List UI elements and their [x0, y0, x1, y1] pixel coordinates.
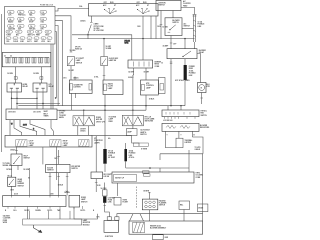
W2 inner box	[114, 175, 137, 182]
wire upper horizontal right	[72, 35, 132, 60]
connector on x66	[66, 191, 68, 192]
wire H out 1	[49, 173, 51, 177]
bulkhead terminal 3	[19, 58, 21, 64]
svg-text:FUSE: FUSE	[108, 200, 112, 202]
wire link to junction	[184, 80, 186, 106]
blower relay blade	[183, 51, 191, 57]
headlight switch contacts	[104, 8, 117, 14]
wire fuse exit 3	[55, 21, 63, 106]
junction dot F2 feed	[132, 110, 133, 111]
fuse block terminal FLSH	[13, 37, 18, 40]
wire into fan switch box	[180, 106, 182, 110]
white connector rect	[103, 190, 108, 196]
connector tick on courtesy drop	[70, 51, 73, 53]
wire box A down	[183, 210, 185, 222]
svg-text:FLSH1: FLSH1	[13, 41, 18, 43]
dome box bottom pin	[73, 207, 75, 209]
H feed connector	[57, 155, 60, 157]
svg-text:INST LPS: INST LPS	[28, 35, 35, 37]
heater control box D	[141, 80, 159, 95]
courtesy lamp element 3	[79, 140, 90, 147]
connector pin 4	[145, 205, 148, 208]
wire feed F2	[132, 106, 134, 116]
svg-text:OFF: OFF	[104, 2, 107, 4]
svg-text:18 W: 18 W	[97, 185, 101, 187]
svg-text:SWITCHES: SWITCHES	[145, 121, 153, 123]
svg-text:ST: ST	[114, 5, 116, 7]
fuse TURN	[6, 30, 12, 33]
svg-text:DOME: DOME	[96, 117, 101, 119]
wire H feed	[58, 150, 60, 164]
relay B box	[33, 83, 47, 92]
dimmer switch box	[11, 154, 22, 166]
glovebox switch blade	[102, 59, 106, 65]
fuse block terminal IGN	[20, 37, 25, 40]
relay A coil pins	[10, 87, 19, 89]
svg-text:PULSE: PULSE	[125, 41, 130, 43]
wire bus to blower relay right pin	[184, 39, 186, 49]
wire D bottom	[145, 95, 147, 110]
svg-text:W/W: W/W	[18, 22, 22, 24]
bulkhead terminal 5	[32, 58, 34, 64]
svg-text:MONITOR: MONITOR	[83, 222, 91, 224]
svg-text:LID SW: LID SW	[104, 176, 110, 178]
svg-text:RR COMPT: RR COMPT	[104, 174, 113, 176]
fuse PWR ACC	[18, 10, 25, 13]
svg-text:18 BRN: 18 BRN	[35, 210, 42, 212]
connector tick right column	[193, 15, 197, 17]
R1 pins	[165, 117, 196, 119]
wire blower motor ground	[201, 93, 203, 105]
ignition and light switch box	[89, 4, 159, 16]
fuse RADIO	[8, 17, 15, 20]
wire ignition sw to right column	[181, 7, 195, 14]
wire box L1 drop 1	[9, 120, 11, 136]
wire G to ashtray run	[92, 135, 132, 137]
svg-text:CLUSTER: CLUSTER	[3, 218, 11, 220]
wire cross lower	[17, 103, 60, 105]
svg-text:SWITCH: SWITCH	[184, 26, 191, 28]
tick on accessory drop	[160, 24, 163, 26]
wire H out1 continues	[49, 176, 51, 195]
svg-text:18 GRY: 18 GRY	[106, 46, 113, 48]
twisted pair ticks	[193, 20, 196, 37]
wire fuse exit 4	[55, 26, 58, 106]
fuse B/U	[16, 30, 22, 33]
ashtray lamp box	[126, 129, 137, 136]
fuse GAUGES	[8, 24, 15, 27]
tick motor ground	[200, 97, 203, 99]
connector pin 6	[153, 205, 156, 208]
svg-text:SWITCH: SWITCH	[140, 134, 147, 136]
svg-text:ILLUM: ILLUM	[108, 86, 114, 88]
courtesy lamp element 2	[50, 140, 61, 147]
bulkhead terminal 6	[39, 58, 41, 64]
wire bus vertical 5	[52, 44, 54, 109]
relay B coil pins	[36, 87, 45, 89]
wire ignition to AC switch	[172, 11, 174, 18]
A/C switch blade	[170, 25, 176, 30]
wire x189 down	[188, 150, 190, 172]
wire switch box drop mid3	[155, 16, 157, 39]
svg-text:10: 10	[161, 63, 163, 65]
heater blower assembly long box W3	[129, 221, 203, 234]
tick under glovebox switch	[103, 75, 106, 77]
small connector pair B	[144, 174, 151, 176]
wire right column pair a	[193, 15, 195, 43]
A/C blade tick	[168, 31, 171, 33]
svg-text:ST: ST	[147, 5, 149, 7]
svg-text:18 BRN: 18 BRN	[106, 48, 113, 50]
svg-text:SWITCH: SWITCH	[201, 115, 208, 117]
svg-text:FUSIBLE: FUSIBLE	[129, 153, 136, 155]
strip bus bar	[5, 57, 49, 59]
fuse DIR	[40, 24, 47, 27]
svg-text:I/P WRG: I/P WRG	[59, 111, 66, 113]
wiper switch contacts	[137, 8, 150, 14]
svg-text:BLO: BLO	[206, 84, 210, 86]
wire box L1 drop 3 diagonal jog	[30, 120, 45, 136]
glovebox switch box right	[101, 57, 108, 66]
svg-text:TO DOME: TO DOME	[109, 117, 116, 119]
wire bus vertical 4	[50, 44, 52, 109]
fuse HAZ	[40, 17, 47, 20]
wire feed F1	[83, 110, 85, 116]
svg-text:BLOWER: BLOWER	[199, 50, 207, 52]
svg-text:RHEO: RHEO	[155, 64, 160, 66]
wire bus into lamp box	[51, 120, 53, 136]
relay B inner contact	[39, 83, 41, 85]
svg-text:LIGHTER: LIGHTER	[74, 87, 82, 89]
dimmer blade	[14, 156, 20, 164]
junction blob y168	[149, 167, 151, 169]
wire blower relay out right to link	[184, 59, 186, 65]
fusible link black bar	[184, 65, 187, 80]
wire right column x202 down from loop	[202, 154, 204, 214]
svg-text:IGNITION: IGNITION	[159, 2, 167, 4]
svg-text:CRTSY: CRTSY	[29, 143, 35, 145]
thermal limiter box	[176, 138, 183, 147]
bulkhead terminal 1	[6, 58, 8, 64]
wire blade to bus	[87, 34, 89, 39]
blower motor circle	[199, 85, 205, 91]
blade tick	[90, 21, 93, 23]
wire box L1 drop 4	[14, 120, 22, 136]
wire switch box drop mid1	[142, 16, 144, 60]
wire relay B pin1 down	[36, 92, 38, 109]
svg-text:FUSE BLOCK: FUSE BLOCK	[40, 5, 54, 7]
wire H out3 continues	[66, 176, 68, 195]
tick below bar3	[103, 205, 106, 207]
wire fuse block to ignition switch feed	[55, 8, 89, 11]
dome lamp X-box F1	[73, 116, 95, 126]
wire right column to blower relay	[194, 42, 196, 49]
svg-text:RH & LH: RH & LH	[145, 116, 152, 118]
svg-text:20 BLK: 20 BLK	[128, 77, 134, 79]
svg-text:LPS: LPS	[49, 84, 52, 86]
ground arrow	[33, 225, 40, 232]
svg-text:TO TURN: TO TURN	[3, 163, 11, 165]
lamp monitor module box	[23, 219, 82, 225]
A/C control switch box	[165, 18, 182, 36]
wiper switch rotary	[138, 9, 150, 14]
svg-text:I/P COMPT: I/P COMPT	[76, 58, 84, 60]
fuse block terminal LPS	[41, 37, 46, 40]
wire dimmer pin2	[17, 166, 19, 171]
svg-text:L M1 M2 H B: L M1 M2 H B	[163, 120, 173, 122]
wire bulkhead to horn relay	[15, 67, 17, 83]
svg-text:18 ORN: 18 ORN	[94, 28, 101, 30]
svg-text:T: T	[181, 135, 182, 137]
svg-text:18 W: 18 W	[23, 125, 27, 127]
fuse INST LPS	[27, 30, 33, 33]
fuse block terminal ACC	[27, 37, 32, 40]
svg-text:IGN1: IGN1	[20, 41, 24, 43]
wire ashtray to link	[132, 136, 139, 147]
svg-text:18 BLK: 18 BLK	[149, 99, 155, 101]
wire mid horizontal power bus	[58, 105, 185, 107]
wire relay A pin2 down	[16, 92, 18, 109]
wire AC switch to right column	[182, 27, 194, 29]
svg-text:BELT: BELT	[44, 113, 48, 115]
narrow box inner	[160, 84, 164, 91]
fuse TAIL	[29, 10, 36, 13]
W3 bottom small box	[153, 235, 164, 240]
courtesy lamp switch box left	[67, 57, 74, 66]
svg-text:CLUSTER: CLUSTER	[183, 3, 191, 5]
svg-text:SWITCH: SWITCH	[71, 168, 78, 170]
blower relay box	[167, 49, 197, 59]
wire W2 bottom drop	[117, 183, 119, 196]
junction dot main bus	[87, 34, 88, 35]
blower motor box	[198, 83, 207, 93]
wire dome switch to harness	[74, 207, 98, 219]
wire bar3 to battery terminal	[105, 203, 110, 217]
svg-text:LPS: LPS	[42, 38, 44, 40]
wire switch box drop mid2	[150, 16, 152, 39]
wire cargo lamp down	[95, 179, 97, 192]
jog	[132, 74, 135, 76]
wire F2 out bottom	[132, 126, 134, 129]
svg-text:BLOWER: BLOWER	[172, 20, 180, 22]
svg-text:DOME: DOME	[81, 197, 86, 199]
C1 inner terminal right	[89, 84, 92, 91]
svg-text:TIMER: TIMER	[44, 116, 50, 118]
fuse WDO	[45, 30, 51, 33]
tick cargo wire	[95, 182, 98, 184]
wire R2b out 2	[178, 131, 180, 138]
wire F1 out left	[77, 126, 79, 136]
svg-text:CB1: CB1	[6, 41, 9, 43]
svg-text:FLSHR: FLSHR	[123, 202, 129, 204]
svg-text:16 ORN: 16 ORN	[33, 73, 40, 75]
wire G to switch H second	[42, 147, 44, 164]
wire courtesy switch to lighter	[70, 66, 72, 80]
svg-text:MODULE: MODULE	[83, 224, 90, 226]
wire bar1 to junction block	[104, 164, 106, 172]
inline connector on relay B wire	[40, 77, 43, 80]
connector pin 3	[153, 201, 156, 204]
svg-text:18 GRY: 18 GRY	[68, 70, 75, 72]
wire into circles box	[148, 192, 150, 199]
relay A inner contact	[13, 83, 15, 85]
small box right A	[179, 201, 190, 210]
bulkhead terminal 2	[13, 58, 15, 64]
svg-text:STRG: STRG	[196, 173, 201, 175]
svg-text:GLOVE BOX: GLOVE BOX	[109, 58, 119, 60]
svg-text:OFF: OFF	[137, 2, 140, 4]
svg-text:FUSIBLE: FUSIBLE	[198, 24, 205, 26]
lamp monitor wide box	[6, 109, 57, 120]
dimmer top tick	[15, 150, 18, 152]
svg-text:IGN: IGN	[21, 38, 23, 40]
svg-text:IGN KEY LP: IGN KEY LP	[115, 178, 125, 180]
svg-text:CB: CB	[7, 38, 9, 40]
wire right of headlamp area	[29, 168, 31, 196]
svg-text:18 BRN: 18 BRN	[143, 191, 150, 193]
svg-text:LIMITER: LIMITER	[185, 142, 192, 144]
wire fuse exit 5	[55, 32, 56, 99]
tick circles feed	[148, 192, 151, 194]
svg-text:COURTESY: COURTESY	[94, 140, 104, 142]
junction dots relay wires	[11, 97, 56, 104]
small box left of dash	[114, 198, 121, 206]
fuse block outline	[5, 7, 56, 45]
svg-text:GLOVE BOX: GLOVE BOX	[140, 130, 150, 132]
wire relay A pin1 down	[11, 92, 13, 109]
courtesy lamps wide box	[5, 135, 92, 147]
wire dimmer feed	[16, 147, 18, 154]
wire headlamp sw down	[11, 186, 13, 195]
svg-text:I/P LPS: I/P LPS	[75, 47, 80, 49]
cargo lamp box	[91, 172, 103, 179]
headlight switch rotary	[105, 9, 117, 14]
svg-text:FUSIBLE: FUSIBLE	[189, 73, 196, 75]
wire left bus x56	[55, 147, 57, 180]
wire terminal2 up	[117, 214, 203, 217]
small box right B	[197, 204, 208, 212]
wire switch box drop left	[90, 16, 92, 22]
wire D top feed	[145, 68, 147, 80]
svg-text:CONTROL: CONTROL	[146, 85, 154, 87]
wire AC switch down	[170, 36, 172, 49]
wire cluster to monitor box	[27, 209, 29, 219]
wire R2 pin1 down	[133, 68, 135, 75]
tick on AC drop	[170, 42, 173, 44]
bulkhead terminal 4	[26, 58, 28, 64]
wire R2b out 3	[191, 131, 193, 137]
cluster bottom pins	[8, 207, 60, 209]
svg-text:18 WHT: 18 WHT	[80, 129, 86, 131]
svg-text:18 GRY: 18 GRY	[144, 72, 151, 74]
svg-text:I/P LPS FUSE: I/P LPS FUSE	[94, 30, 104, 32]
svg-text:SWITCH: SWITCH	[76, 62, 83, 64]
svg-text:WIRE: WIRE	[3, 222, 7, 224]
wire F1 out right	[88, 126, 90, 136]
wire run to cargo lamp	[95, 136, 97, 172]
fuse HTR A/C	[29, 24, 36, 27]
wire harness y213 diagonals	[130, 214, 134, 221]
cigarette lighter box C1	[69, 80, 92, 93]
svg-text:C2: C2	[10, 56, 12, 58]
wire ignition sw accessory drop	[160, 11, 162, 39]
wire W3 to bottom box	[157, 233, 159, 236]
wire C1 top stub 2	[74, 77, 76, 81]
wire bar2 feed	[125, 143, 127, 149]
tick right of cluster	[82, 206, 84, 209]
svg-text:REL: REL	[180, 205, 183, 207]
C2 inner terminal	[104, 84, 107, 91]
svg-text:SWITCH: SWITCH	[47, 170, 54, 172]
junction dot	[184, 38, 185, 39]
svg-text:POWER: POWER	[189, 66, 196, 68]
svg-text:S TERM: S TERM	[141, 148, 148, 150]
ignition switch box top right	[156, 0, 181, 10]
bulkhead connector strip	[2, 53, 51, 67]
svg-text:FUSIBLE: FUSIBLE	[108, 153, 115, 155]
svg-text:FLSH: FLSH	[14, 38, 17, 40]
fuse block terminal CB	[6, 37, 11, 40]
fan switch box R1	[162, 110, 199, 117]
wire right column pair b	[195, 15, 197, 43]
bulkhead terminal 7	[45, 58, 47, 64]
svg-text:JUNCTION: JUNCTION	[105, 236, 114, 238]
wire bar2 down	[125, 161, 127, 168]
W3 hatched left end	[133, 222, 145, 232]
wire monitor pins	[29, 211, 70, 219]
svg-text:18 BLK: 18 BLK	[58, 184, 64, 186]
wire right loop down	[192, 137, 203, 154]
svg-text:RESISTORS: RESISTORS	[200, 127, 209, 129]
radio box C2	[103, 80, 123, 95]
D inner terminal	[141, 84, 144, 90]
junction dot link	[180, 105, 181, 106]
fuse STOP	[29, 17, 36, 20]
wire R2b out 1	[165, 131, 176, 147]
wiper relay box R2	[128, 60, 153, 68]
wire left end down	[167, 106, 169, 110]
junction dot F1 feed	[83, 110, 84, 111]
wire C1 bottom 2	[75, 93, 77, 98]
svg-text:SWITCH: SWITCH	[81, 201, 88, 203]
svg-text:18 BLK: 18 BLK	[80, 131, 86, 133]
svg-text:18 W 18 B: 18 W 18 B	[8, 111, 16, 113]
headlamp switch blade	[9, 179, 14, 185]
courtesy lamp element 1	[16, 140, 27, 147]
dashed connector boundary	[135, 187, 137, 209]
svg-text:CRTSY LPS: CRTSY LPS	[96, 121, 105, 123]
R2 inner bars	[134, 62, 149, 67]
wire right column down to box	[202, 214, 204, 221]
svg-text:C1: C1	[4, 56, 6, 58]
svg-text:18 GRN: 18 GRN	[23, 169, 30, 171]
R1 inner detents	[166, 112, 190, 115]
wire C2 bottom to link	[104, 95, 106, 150]
inline connector on relay A wire	[14, 77, 17, 80]
connector pin 2	[149, 201, 152, 204]
fuse block terminal GA	[47, 37, 52, 40]
cluster top inner pins	[12, 196, 67, 198]
wire loop horizontal	[160, 153, 203, 155]
ticks H outs	[49, 175, 69, 177]
wire bulkhead to accessory relay	[40, 67, 42, 83]
headlamp switch box	[8, 177, 16, 186]
svg-text:16 ORN: 16 ORN	[7, 73, 14, 75]
courtesy fuse switch blade	[88, 25, 91, 34]
fuse CLK	[8, 10, 15, 13]
svg-text:COLUMN: COLUMN	[196, 175, 204, 177]
svg-text:18 W: 18 W	[157, 26, 161, 28]
